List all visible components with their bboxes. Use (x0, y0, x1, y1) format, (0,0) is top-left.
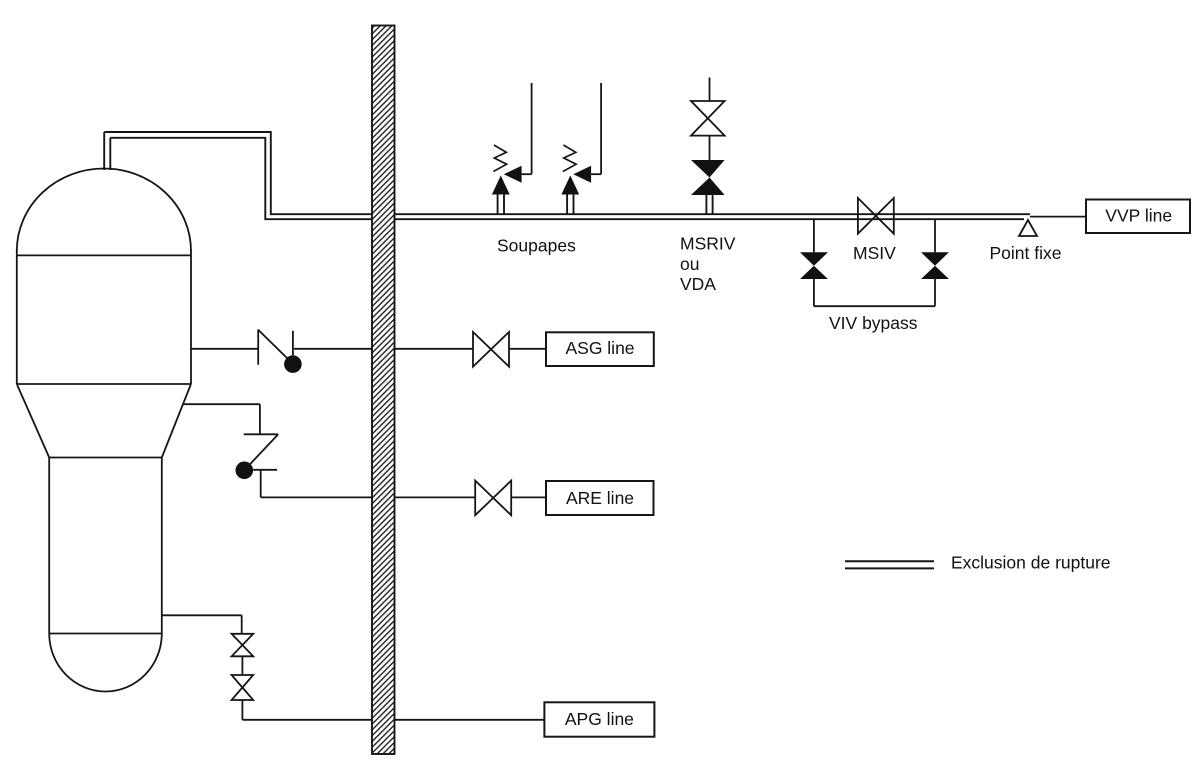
stem (497, 195, 499, 215)
left drop (813, 219, 815, 252)
spring (563, 145, 576, 172)
cone left (17, 384, 49, 458)
left lower drop (813, 279, 815, 306)
VIV bypass loop (800, 219, 949, 306)
APG valve 2 (232, 675, 254, 700)
svg-text:Point fixe: Point fixe (990, 243, 1062, 263)
main steam line outer wall (double line pipe) (104, 132, 1030, 214)
svg-text:VDA: VDA (680, 274, 716, 294)
drop 2 (241, 700, 243, 720)
check valve tick 1 (244, 433, 279, 435)
safety valve SV2 (561, 83, 601, 214)
APG branch (162, 615, 655, 736)
outlet link (522, 173, 532, 175)
stem (566, 195, 568, 215)
pipe to wall (261, 496, 476, 498)
steam outlet nozzle double line (104, 132, 110, 170)
svg-text:VVP line: VVP line (1105, 205, 1172, 225)
pipe from vessel (162, 614, 242, 616)
stem double line (705, 195, 707, 214)
weld line (17, 254, 191, 256)
outlet link (591, 173, 601, 175)
link (709, 136, 711, 160)
shell girth line (17, 383, 191, 385)
APG line box (544, 702, 654, 736)
pipe from cone (183, 403, 260, 405)
svg-text:MSIV: MSIV (853, 243, 896, 263)
ASG isolation valve (473, 332, 509, 367)
svg-text:MSRIV: MSRIV (680, 233, 736, 253)
single line to VVP (1030, 216, 1086, 218)
safety valve SV1 (492, 83, 532, 214)
open valve (691, 101, 725, 136)
VVP line box (1086, 200, 1190, 234)
ARE isolation valve (475, 481, 511, 516)
cone bottom line (49, 457, 162, 459)
cone right (162, 384, 191, 458)
pipe to box (242, 719, 544, 721)
right bypass valve (closed) (921, 252, 949, 265)
svg-text:ASG line: ASG line (565, 338, 634, 358)
check valve pivot dot (236, 462, 254, 480)
ASG line box (546, 332, 654, 366)
APG valve 1 (232, 634, 254, 657)
discharge pipe (600, 83, 602, 174)
legend double line (exclusion de rupture) (845, 561, 934, 568)
svg-text:VIV bypass: VIV bypass (829, 313, 918, 333)
MSIV valve (858, 198, 894, 234)
ARE branch (183, 404, 653, 515)
lower shell right side (161, 458, 163, 634)
spring (493, 145, 506, 172)
pipe to wall (294, 348, 473, 350)
ARE line box (546, 481, 654, 515)
svg-text:Soupapes: Soupapes (497, 236, 576, 256)
discharge pipe (531, 83, 533, 174)
svg-text:Exclusion de rupture: Exclusion de rupture (951, 553, 1111, 573)
inlet triangle (561, 176, 579, 195)
outlet triangle (504, 166, 522, 183)
inlet triangle (492, 176, 510, 195)
lower girth line (49, 633, 162, 635)
vent line (709, 78, 711, 102)
pipe from vessel (191, 348, 258, 350)
check valve pivot dot (284, 355, 302, 373)
MSRIV/VDA valve train (691, 78, 725, 215)
drop (259, 404, 261, 434)
right drop (934, 219, 936, 252)
closed valve (691, 160, 725, 178)
drop 2 (260, 470, 262, 498)
pipe to box (511, 496, 546, 498)
ASG branch (191, 329, 654, 373)
bypass bottom run (814, 305, 935, 307)
left bypass valve (closed) (800, 252, 828, 265)
containment wall (372, 26, 395, 755)
bottom head (49, 634, 162, 692)
check valve tick 1 (257, 329, 259, 364)
outlet triangle (573, 166, 591, 183)
svg-text:ARE line: ARE line (566, 488, 634, 508)
check valve tick 2 (292, 331, 294, 356)
drop (241, 615, 243, 634)
check valve flap (258, 330, 287, 358)
right lower drop (934, 279, 936, 306)
upper shell right side (190, 250, 192, 384)
svg-text:ou: ou (680, 254, 699, 274)
dome (17, 169, 191, 252)
svg-text:APG line: APG line (565, 709, 634, 729)
link (241, 656, 243, 675)
check valve tick 2 (253, 469, 277, 471)
steam generator vessel shell (17, 169, 191, 692)
lower shell left side (48, 458, 50, 634)
main steam line inner wall (double line pipe) (110, 138, 1024, 219)
pipe to box (509, 348, 546, 350)
upper shell left side (16, 250, 18, 384)
check valve flap (250, 435, 278, 464)
point fixe anchor (1019, 220, 1037, 236)
